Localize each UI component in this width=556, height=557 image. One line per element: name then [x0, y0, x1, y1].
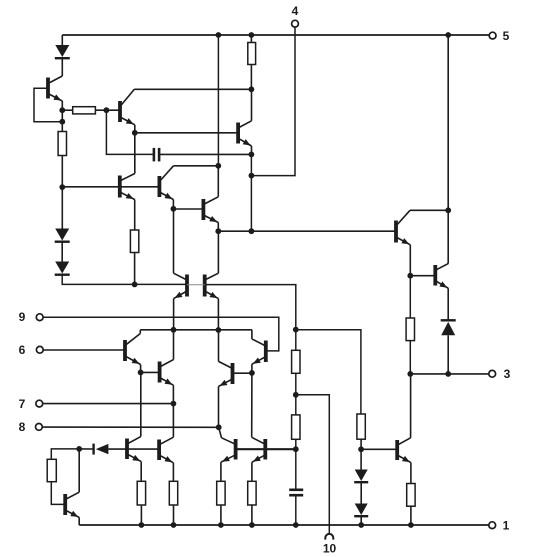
wire Q11 base lead [233, 372, 252, 374]
resistor R6 [137, 481, 145, 505]
resistor R10 [292, 350, 300, 373]
wire Q5 emitter node to pin4 node [250, 154, 252, 175]
wire pin4 node to Q6 emitter node [250, 176, 252, 232]
node rail junction diodes [358, 522, 364, 528]
transistor Q1 [48, 76, 62, 110]
node diode line junction [76, 446, 82, 452]
node Q6 emitter junction [215, 228, 221, 234]
wire D2 to D3 [61, 242, 63, 261]
resistor R11 [292, 415, 300, 439]
terminal pin 4 [292, 4, 299, 27]
wire base node to C2 [295, 449, 297, 489]
wire R10 bottom to pin10 node [295, 373, 297, 395]
node pin3 junction left [407, 371, 413, 377]
node tail junction left [171, 327, 177, 333]
terminal pin 6 [19, 343, 44, 357]
transistor Q10 tail [252, 330, 266, 373]
node rail junction C2 [293, 522, 299, 528]
wire shared base line Q4 Q3 [62, 186, 159, 188]
diode D6 [94, 444, 109, 455]
wire D5 to rail [360, 517, 362, 525]
svg-text:8: 8 [19, 420, 26, 434]
wire Q1 base loop [34, 88, 62, 122]
wire Q2 collector line to R4 bottom [134, 88, 251, 90]
wire pin7 line [43, 403, 174, 405]
wire pin4 lead [251, 27, 295, 175]
diode D5 [354, 504, 368, 517]
node Q2 emitter / Q4 collector junction [132, 130, 138, 136]
node Q1 emitter / R1 junction [59, 107, 65, 113]
node Q18 collector junction [445, 207, 451, 213]
svg-text:5: 5 [503, 29, 510, 43]
wire R6 bottom to rail [140, 505, 142, 525]
wire R4 top lead [250, 35, 252, 43]
transistor Q15 [159, 437, 173, 481]
node R4 bottom / Q2 collector junction [249, 86, 255, 92]
transistor Q8 input right [205, 231, 219, 330]
node rail junction R6 [139, 522, 145, 528]
wire Q18 collector line [410, 209, 448, 211]
resistor R2 [58, 132, 66, 156]
transistor Q4 [120, 133, 135, 230]
wire pin10 branch [296, 395, 330, 534]
node R3 bottom junction on bias line [132, 282, 138, 288]
wire Q16/Q17 shared base line [236, 448, 296, 450]
transistor Q7 input left [174, 209, 188, 330]
svg-text:10: 10 [323, 542, 337, 556]
transistor Q2 [120, 89, 135, 133]
terminal pin 9 [19, 310, 43, 324]
node Q3 emitter / Q6 base junction [171, 206, 177, 212]
transistor Q12 [160, 330, 174, 437]
wire R8 bottom to rail [220, 505, 222, 525]
wire Q3 collector to node [174, 165, 219, 167]
transistor Q14 [127, 372, 141, 481]
node rail junction R7 [171, 522, 177, 528]
node pin3 junction right [445, 371, 451, 377]
node pin4 junction [249, 173, 255, 179]
node pin7 junction [171, 401, 177, 407]
wire feedback node to R12 corner [296, 330, 361, 414]
wire bias node down to D2 [61, 187, 63, 228]
terminal pin 10 symbol [325, 534, 333, 540]
node rail junction R14 [408, 522, 414, 528]
wire D4 to D5 [360, 483, 362, 504]
wire R4 bottom lead [250, 65, 252, 90]
wire D1 anode from top rail [61, 35, 63, 46]
wire D3 cathode down and right to input base line [62, 275, 187, 284]
wire top rail drop to output [447, 35, 449, 210]
wire R13 bottom to pin3 node [409, 341, 411, 374]
capacitor C1 [154, 148, 159, 162]
node Q3/Q5 collector junction [215, 163, 221, 169]
wire R2 bottom to bias node [61, 156, 63, 188]
resistor R13 [406, 318, 414, 341]
terminal pin 5 [489, 29, 509, 43]
wire input right base to feedback node [205, 285, 296, 330]
svg-text:6: 6 [19, 343, 26, 357]
svg-text:1: 1 [503, 519, 510, 533]
wire R7 bottom to rail [173, 505, 175, 525]
wire R12 bottom to diode node [360, 439, 362, 449]
node C1 / Q5 emitter junction [249, 152, 255, 158]
terminal pin 7 [19, 397, 43, 411]
wire Q18 emitter to R13 [409, 276, 411, 318]
node top rail junction at x218 [216, 32, 222, 38]
wire R3 bottom to bias line [134, 253, 136, 285]
resistor R9 [248, 481, 256, 505]
node driver base junction [249, 228, 255, 234]
node bias line junction [59, 184, 65, 190]
wire top rail drop to Q3/Q6 collectors [217, 35, 219, 166]
transistor Q13 [65, 449, 79, 525]
wire D6 to Q14/Q15 bases [108, 448, 159, 450]
node Q16/Q17 base junction [293, 446, 299, 452]
node rail junction R9 [249, 522, 255, 528]
wire D1 cathode to Q1 collector [61, 58, 63, 76]
diode D4 [354, 470, 368, 483]
transistor Q19 [435, 210, 448, 320]
wire emitter node to base-loop node [61, 110, 63, 131]
node Q10 emitter / Q11 base junction [249, 370, 255, 376]
node Q20 base junction [358, 446, 364, 452]
wire D7 to pin3 node [447, 335, 449, 374]
svg-text:9: 9 [19, 310, 26, 324]
wire feedback vertical R10 top [295, 330, 297, 351]
wire bottom rail (pin 1 rail) [79, 524, 488, 526]
node feedback top junction [293, 327, 299, 333]
wire diode node to D4 [360, 449, 362, 469]
transistor Q16 [221, 438, 236, 482]
node top rail junction at R4 [249, 32, 255, 38]
wire R9 bottom to rail [251, 505, 253, 525]
wire Q16 collector to pin8 node [219, 427, 222, 438]
wire driver base line [218, 230, 396, 232]
capacitor C2 [289, 490, 303, 495]
wire R1 left lead [62, 109, 72, 111]
svg-text:7: 7 [19, 397, 26, 411]
node Q9 emitter / Q12 base junction [138, 370, 144, 376]
wire top supply rail (pin 5 rail) [62, 34, 489, 36]
wire diode line left corner [51, 449, 79, 459]
wire Q12 base lead [141, 371, 160, 373]
wire C1 right plate to Q5 emitter node [159, 153, 251, 155]
transistor Q6 [203, 166, 218, 231]
wire faint segment between input bases [187, 284, 205, 286]
diode D2 [55, 229, 70, 242]
wire C2 bottom to rail [295, 496, 297, 525]
node Q1 base loop junction [59, 119, 65, 125]
node R1/C1 junction [104, 107, 110, 113]
node tail junction right [216, 327, 222, 333]
wire pin6 line [43, 349, 125, 351]
transistor Q18 [396, 210, 410, 275]
wire diode node to D6 [79, 448, 93, 450]
node pin8 / Q11 emitter junction [216, 424, 222, 430]
wire Q6 base lead [173, 208, 203, 210]
diode D1 [55, 45, 70, 58]
transistor Q9 [125, 330, 141, 373]
resistor R12 [357, 414, 365, 439]
resistor R5 (Q13 base) [47, 459, 56, 481]
svg-text:3: 3 [504, 367, 511, 381]
wire R14 bottom to rail [410, 506, 412, 525]
wire Q19 base lead [410, 275, 435, 277]
node Q19 base junction [407, 273, 413, 279]
wire tail node line [140, 329, 252, 331]
resistor R3 (Q4 emitter) [130, 230, 138, 253]
wire R5 bottom to Q13 base [51, 482, 65, 505]
resistor R1 [73, 107, 96, 114]
diode D3 [55, 262, 70, 275]
resistor R7 [169, 481, 177, 505]
wire pin3 line [410, 373, 488, 375]
transistor Q11 [219, 330, 233, 427]
svg-text:4: 4 [292, 4, 299, 18]
transistor Q5 [238, 89, 251, 154]
resistor R14 [407, 484, 415, 507]
resistor R8 [217, 481, 225, 505]
node top rail junction output [445, 32, 451, 38]
node pin10 branch junction [293, 392, 299, 398]
wire pin8 line [42, 426, 218, 428]
terminal pin 3 [489, 367, 511, 381]
wire Q20 base lead [361, 448, 397, 450]
terminal pin 1 [489, 519, 510, 533]
resistor R4 [248, 43, 256, 65]
wire R1 right lead to Q2 base [95, 109, 120, 111]
wire pin10 node to R11 top [295, 395, 297, 415]
node rail junction R8 [218, 522, 224, 528]
wire C1 branch from R1 node [106, 110, 153, 154]
transistor Q3 [159, 166, 173, 209]
transistor Q17 [252, 373, 266, 481]
terminal pin 8 [19, 420, 43, 434]
wire pin9 line and Q10 base loop [43, 317, 278, 351]
diode D7 (upward) [441, 320, 456, 335]
transistor Q20 [397, 374, 411, 484]
wire Q2 emitter node to Q5 base [135, 132, 238, 134]
wire R11 bottom to base node [295, 439, 297, 449]
